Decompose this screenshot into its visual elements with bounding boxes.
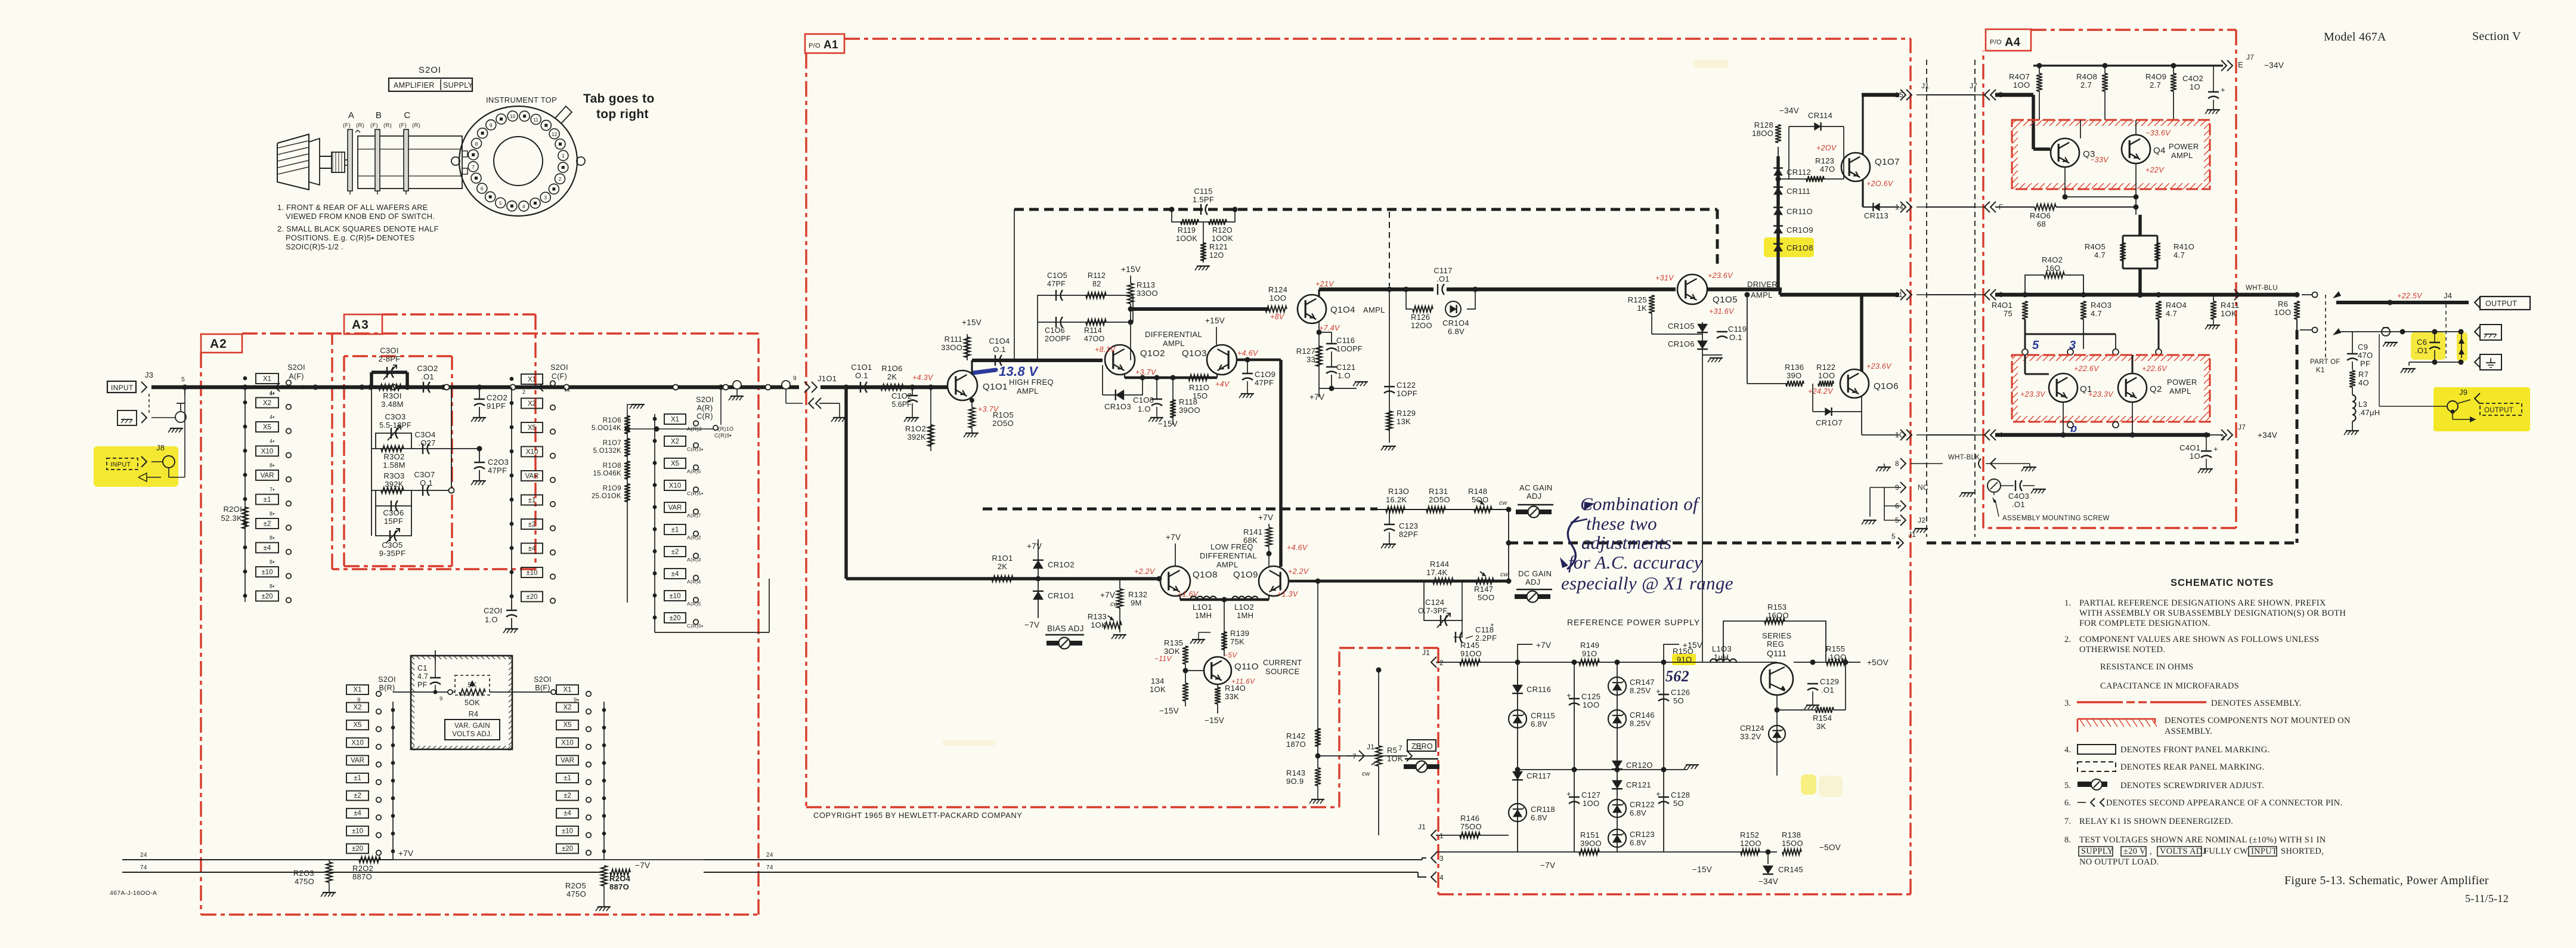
svg-text:75K: 75K — [1230, 637, 1244, 646]
svg-text:±2: ±2 — [264, 521, 271, 528]
svg-text:AMPL: AMPL — [2171, 151, 2193, 160]
svg-text:5OK: 5OK — [465, 699, 480, 707]
svg-text:Q11O: Q11O — [1234, 662, 1259, 672]
svg-text:L1O1: L1O1 — [1193, 603, 1212, 612]
svg-text:1OO: 1OO — [1583, 799, 1599, 808]
svg-text:CR124: CR124 — [1740, 724, 1764, 733]
svg-text:C123: C123 — [1399, 521, 1418, 530]
svg-text:VOLTS ADJ.: VOLTS ADJ. — [452, 731, 492, 738]
svg-text:VIEWED FROM KNOB END OF SWITCH: VIEWED FROM KNOB END OF SWITCH. — [286, 212, 435, 221]
svg-text:9M: 9M — [1131, 598, 1142, 607]
svg-text:DENOTES FRONT PANEL MARKING.: DENOTES FRONT PANEL MARKING. — [2120, 745, 2270, 755]
svg-text:1OPF: 1OPF — [1397, 389, 1417, 398]
svg-text:CR1O4: CR1O4 — [1442, 319, 1469, 328]
svg-text:−15V: −15V — [1692, 865, 1712, 874]
svg-text:1O: 1O — [1895, 431, 1905, 439]
svg-text:X1: X1 — [528, 376, 536, 384]
svg-text:68: 68 — [2037, 220, 2046, 228]
svg-text:C3O6: C3O6 — [383, 508, 404, 517]
svg-text:SUPPLY: SUPPLY — [443, 81, 473, 89]
svg-text:R4O2: R4O2 — [2042, 255, 2063, 264]
svg-text:AMPL: AMPL — [1163, 339, 1185, 348]
svg-text:X5: X5 — [671, 461, 679, 468]
svg-text:392K: 392K — [907, 433, 926, 441]
svg-text:6: 6 — [481, 186, 484, 192]
svg-text:P/O: P/O — [809, 42, 821, 50]
svg-text:8▪: 8▪ — [270, 535, 275, 541]
svg-text:+7V: +7V — [398, 849, 413, 858]
svg-text:4.7: 4.7 — [417, 672, 428, 681]
svg-text:1▪: 1▪ — [302, 384, 307, 390]
svg-text:33OO: 33OO — [941, 343, 962, 352]
svg-text:C2OI: C2OI — [484, 606, 503, 615]
svg-text:1OO: 1OO — [2274, 308, 2291, 317]
svg-text:A: A — [348, 110, 354, 121]
svg-text:1.O: 1.O — [1138, 404, 1151, 413]
svg-text:+31V: +31V — [1655, 274, 1674, 282]
svg-text:+4.6V: +4.6V — [1287, 544, 1308, 552]
svg-text:O.1: O.1 — [855, 371, 868, 380]
svg-text:39O: 39O — [1787, 371, 1801, 380]
svg-text:C3O2: C3O2 — [417, 364, 438, 373]
svg-text:WHT-BLK: WHT-BLK — [1948, 454, 1980, 461]
svg-text:±20: ±20 — [562, 845, 573, 853]
svg-text:C1O2: C1O2 — [891, 391, 912, 400]
svg-text:C129: C129 — [1820, 677, 1839, 686]
svg-text:R138: R138 — [1782, 830, 1801, 839]
svg-text:5O: 5O — [1673, 799, 1684, 808]
svg-text:±4: ±4 — [563, 810, 571, 817]
svg-text:X5: X5 — [563, 722, 571, 729]
svg-text:A(R): A(R) — [697, 404, 713, 412]
svg-text:5: 5 — [1891, 532, 1896, 541]
svg-text:2. SMALL BLACK SQUARES DENOTE: 2. SMALL BLACK SQUARES DENOTE HALF — [277, 224, 439, 233]
svg-text:17.4K: 17.4K — [1426, 568, 1448, 577]
svg-text:5.: 5. — [2064, 781, 2071, 790]
svg-text:RELAY K1 IS SHOWN DEENERGIZED.: RELAY K1 IS SHOWN DEENERGIZED. — [2079, 817, 2233, 826]
svg-text:−15V: −15V — [1205, 716, 1224, 725]
svg-text:91PF: 91PF — [487, 402, 506, 410]
svg-text:C115: C115 — [1194, 187, 1212, 196]
svg-text:+7V: +7V — [1027, 542, 1042, 551]
svg-text:1.58M: 1.58M — [383, 461, 405, 470]
svg-text:DENOTES SECOND APPEARANCE OF A: DENOTES SECOND APPEARANCE OF A CONNECTOR… — [2106, 798, 2342, 808]
svg-text:R144: R144 — [1430, 560, 1449, 569]
svg-text:5OO: 5OO — [1478, 593, 1494, 602]
svg-text:+: + — [2221, 85, 2225, 94]
svg-text:2K: 2K — [998, 562, 1008, 571]
svg-text:±4: ±4 — [528, 545, 536, 552]
svg-text:R1O5: R1O5 — [993, 410, 1014, 419]
svg-text:BIAS ADJ: BIAS ADJ — [1047, 624, 1084, 633]
svg-text:VAR: VAR — [561, 757, 574, 764]
svg-text:R2O3: R2O3 — [293, 869, 314, 878]
svg-text:R133: R133 — [1088, 612, 1107, 621]
svg-text:X2: X2 — [353, 704, 361, 711]
svg-text:CR1O9: CR1O9 — [1787, 226, 1813, 234]
svg-text:1OK: 1OK — [1387, 754, 1403, 763]
svg-text:R11O: R11O — [1189, 383, 1209, 392]
svg-text:+7V: +7V — [1309, 393, 1324, 402]
svg-text:2: 2 — [1439, 659, 1444, 667]
svg-text:47OO: 47OO — [1084, 335, 1105, 343]
svg-text:75OO: 75OO — [1460, 822, 1482, 831]
svg-text:REFERENCE POWER SUPPLY: REFERENCE POWER SUPPLY — [1567, 617, 1700, 627]
svg-text:7: 7 — [472, 164, 475, 170]
svg-text:+: + — [1566, 789, 1571, 798]
svg-text:±20 V: ±20 V — [2123, 847, 2146, 856]
svg-text:Q1O4: Q1O4 — [1330, 305, 1355, 315]
svg-text:R129: R129 — [1397, 409, 1416, 418]
svg-text:5.6PF: 5.6PF — [891, 400, 912, 409]
svg-text:R127: R127 — [1296, 347, 1315, 356]
svg-text:+: + — [1656, 687, 1661, 696]
svg-text:887O: 887O — [609, 882, 629, 891]
svg-text:C6: C6 — [2417, 338, 2427, 347]
svg-text:33: 33 — [1306, 355, 1315, 364]
svg-text:1OK: 1OK — [2221, 309, 2237, 318]
svg-text:Q1O5: Q1O5 — [1713, 295, 1738, 305]
svg-text:REG: REG — [1767, 640, 1784, 649]
svg-text:+31.6V: +31.6V — [1709, 307, 1735, 316]
svg-text:R131: R131 — [1429, 487, 1448, 496]
svg-text:C1O9: C1O9 — [1255, 370, 1275, 379]
svg-text:L1O2: L1O2 — [1234, 603, 1254, 612]
svg-text:±20: ±20 — [526, 594, 537, 601]
svg-text:7: 7 — [1352, 752, 1357, 761]
svg-text:(F): (F) — [343, 122, 351, 129]
svg-text:DENOTES REAR PANEL MARKING.: DENOTES REAR PANEL MARKING. — [2120, 762, 2264, 772]
svg-text:(R): (R) — [356, 122, 364, 129]
svg-text:DIFFERENTIAL: DIFFERENTIAL — [1200, 551, 1257, 560]
svg-text:A3: A3 — [352, 318, 369, 332]
svg-text:+23.3V: +23.3V — [2088, 390, 2114, 399]
svg-text:J7: J7 — [2238, 423, 2246, 431]
svg-text:X10: X10 — [669, 483, 681, 490]
svg-text:these two: these two — [1586, 513, 1657, 534]
svg-text:(F): (F) — [399, 122, 407, 129]
svg-text:Q1O2: Q1O2 — [1140, 348, 1165, 359]
svg-text:16.2K: 16.2K — [1386, 495, 1407, 504]
svg-text:R153: R153 — [1767, 603, 1787, 612]
svg-text:33OO: 33OO — [1137, 289, 1158, 298]
svg-text:NC: NC — [1918, 483, 1928, 492]
svg-text:.47μH: .47μH — [2358, 408, 2380, 417]
svg-text:X1: X1 — [563, 687, 571, 694]
svg-text:CR1O7: CR1O7 — [1816, 418, 1843, 427]
svg-text:A(R)7: A(R)7 — [687, 512, 701, 518]
svg-text:C127: C127 — [1581, 790, 1600, 799]
svg-text:4.7: 4.7 — [2166, 309, 2177, 318]
svg-text:±10: ±10 — [352, 827, 363, 835]
svg-text:4.7: 4.7 — [2091, 309, 2102, 318]
svg-text:Q1O8: Q1O8 — [1193, 570, 1218, 580]
svg-text:11: 11 — [533, 117, 538, 123]
svg-text:6.8V: 6.8V — [1630, 838, 1646, 847]
svg-text:VAR: VAR — [351, 757, 364, 764]
svg-text:1K: 1K — [1637, 304, 1647, 313]
svg-text:C1O6: C1O6 — [1045, 326, 1065, 335]
svg-text:8.25V: 8.25V — [1630, 719, 1651, 728]
svg-text:R3O3: R3O3 — [383, 471, 404, 480]
svg-text:R4O1: R4O1 — [1992, 301, 2012, 310]
svg-text:SUPPLY: SUPPLY — [2081, 847, 2114, 856]
svg-text:C1O1: C1O1 — [851, 363, 872, 372]
svg-text:R1O9: R1O9 — [603, 485, 621, 492]
svg-text:12: 12 — [564, 387, 571, 393]
svg-text:1OO: 1OO — [2013, 81, 2030, 89]
svg-text:+4.6V: +4.6V — [1237, 349, 1259, 357]
svg-text:82PF: 82PF — [1399, 530, 1418, 539]
svg-text:1. FRONT & REAR OF ALL WAFERS: 1. FRONT & REAR OF ALL WAFERS ARE — [277, 203, 428, 212]
svg-text:91O: 91O — [1677, 655, 1692, 664]
svg-text:13K: 13K — [1397, 417, 1411, 426]
svg-text:±2: ±2 — [528, 521, 536, 529]
svg-text:X5: X5 — [263, 424, 271, 431]
svg-text:C1O8: C1O8 — [1133, 396, 1154, 404]
svg-text:ADJ: ADJ — [1527, 492, 1541, 501]
svg-text:C4O1: C4O1 — [2179, 443, 2200, 452]
svg-text:.O1: .O1 — [421, 372, 434, 381]
svg-text:467A-J-16OO-A: 467A-J-16OO-A — [110, 890, 157, 897]
svg-text:15OO: 15OO — [1782, 839, 1803, 848]
svg-text:Model 467A: Model 467A — [2324, 30, 2386, 44]
svg-text:8.: 8. — [2064, 835, 2071, 845]
svg-text:1.O: 1.O — [485, 615, 498, 624]
svg-text:CR112: CR112 — [1787, 168, 1811, 177]
svg-text:8▪: 8▪ — [270, 559, 275, 565]
svg-text:C116: C116 — [1336, 336, 1355, 345]
svg-text:+: + — [1656, 789, 1661, 798]
svg-text:1MH: 1MH — [1195, 611, 1212, 620]
svg-text:−15V: −15V — [1159, 706, 1179, 715]
svg-text:O.1: O.1 — [1729, 333, 1742, 342]
svg-text:R135: R135 — [1164, 638, 1183, 647]
svg-text:CR123: CR123 — [1630, 830, 1655, 839]
svg-text:9O.9: 9O.9 — [1286, 777, 1304, 786]
svg-text:8: 8 — [475, 141, 478, 147]
svg-text:DENOTES SCREWDRIVER ADJUST.: DENOTES SCREWDRIVER ADJUST. — [2120, 781, 2264, 790]
svg-text:.O27: .O27 — [418, 439, 435, 447]
svg-text:2.7: 2.7 — [2150, 81, 2161, 89]
svg-text:R4O8: R4O8 — [2076, 72, 2097, 81]
svg-text:Q4: Q4 — [2153, 146, 2166, 156]
svg-text:91OO: 91OO — [1460, 649, 1482, 658]
svg-text:R114: R114 — [1084, 326, 1102, 335]
svg-text:X10: X10 — [561, 739, 573, 746]
svg-text:3: 3 — [544, 194, 547, 200]
svg-text:1O: 1O — [2190, 82, 2200, 91]
svg-text:±1: ±1 — [563, 775, 571, 782]
svg-text:1OO: 1OO — [1270, 294, 1286, 302]
svg-text:R122: R122 — [1816, 363, 1835, 372]
svg-text:R1O1: R1O1 — [992, 554, 1013, 563]
svg-text:R147: R147 — [1474, 585, 1493, 594]
svg-text:74: 74 — [140, 864, 147, 871]
svg-text:R123: R123 — [1815, 156, 1834, 165]
svg-text:R13O: R13O — [1388, 487, 1409, 496]
svg-text:Q1O3: Q1O3 — [1182, 348, 1207, 359]
svg-text:R1O7: R1O7 — [603, 440, 621, 447]
svg-text:±1: ±1 — [354, 775, 361, 782]
svg-text:Tab goes to: Tab goes to — [583, 92, 655, 106]
svg-text:R411: R411 — [2221, 301, 2239, 310]
svg-text:±20: ±20 — [669, 615, 680, 622]
svg-text:POWER: POWER — [2169, 142, 2199, 151]
svg-text:6.8V: 6.8V — [1630, 808, 1646, 817]
svg-text:POSITIONS. E.g. C(R)5▪ DENOTES: POSITIONS. E.g. C(R)5▪ DENOTES — [286, 233, 414, 242]
svg-text:ASSEMBLY.: ASSEMBLY. — [2165, 727, 2212, 736]
svg-text:CR121: CR121 — [1626, 780, 1651, 789]
svg-text:(R): (R) — [383, 122, 392, 129]
svg-text:HIGH FREQ: HIGH FREQ — [1009, 378, 1054, 387]
svg-text:J1: J1 — [1418, 823, 1426, 831]
svg-text:CR1O3: CR1O3 — [1104, 402, 1131, 411]
svg-text:91O: 91O — [1582, 649, 1597, 658]
svg-text:S2OI: S2OI — [287, 363, 305, 372]
svg-text:+7V: +7V — [1166, 533, 1181, 542]
svg-text:52.3K: 52.3K — [221, 514, 243, 523]
svg-text:6.: 6. — [2064, 798, 2071, 808]
svg-text:CR1O6: CR1O6 — [1668, 339, 1695, 348]
svg-text:CAPACITANCE IN MICROFARADS: CAPACITANCE IN MICROFARADS — [2100, 681, 2239, 691]
svg-text:47O: 47O — [1820, 165, 1835, 174]
svg-text:82: 82 — [1092, 280, 1101, 288]
svg-text:AMPL: AMPL — [2169, 387, 2191, 396]
svg-text:+1.3V: +1.3V — [1277, 590, 1299, 598]
svg-text:Q2: Q2 — [2150, 384, 2162, 394]
svg-text:C121: C121 — [1336, 363, 1355, 372]
svg-text:C(R)3▪: C(R)3▪ — [687, 446, 703, 452]
svg-text:2K: 2K — [887, 372, 897, 381]
svg-text:Q111: Q111 — [1767, 649, 1787, 658]
svg-text:R111: R111 — [945, 335, 962, 344]
svg-text:2: 2 — [559, 176, 562, 182]
svg-text:INPUT: INPUT — [2251, 847, 2277, 856]
svg-text:15.O46K: 15.O46K — [593, 470, 622, 477]
svg-text:VAR: VAR — [668, 505, 682, 512]
svg-text:+15V: +15V — [1205, 316, 1225, 325]
svg-text:SHORTED,: SHORTED, — [2281, 847, 2324, 856]
svg-text:PF: PF — [2360, 359, 2370, 368]
svg-text:1OK: 1OK — [1150, 685, 1166, 694]
svg-text:4: 4 — [522, 203, 525, 209]
svg-text:INSTRUMENT TOP: INSTRUMENT TOP — [486, 95, 557, 104]
svg-text:±10: ±10 — [261, 569, 273, 576]
svg-text:5: 5 — [181, 376, 185, 383]
svg-text:R113: R113 — [1137, 280, 1155, 289]
svg-text:J4: J4 — [2444, 291, 2452, 300]
svg-text:+22.5V: +22.5V — [2397, 292, 2423, 300]
svg-text:OUTPUT: OUTPUT — [2485, 299, 2517, 308]
svg-text:3.: 3. — [2064, 699, 2071, 708]
svg-text:4▪: 4▪ — [270, 414, 275, 420]
svg-text:5: 5 — [499, 200, 502, 206]
svg-text:−34V: −34V — [2264, 61, 2284, 70]
svg-text:OUTPUT: OUTPUT — [2484, 407, 2513, 414]
svg-text:J9: J9 — [2459, 388, 2467, 397]
svg-text:X1: X1 — [263, 376, 271, 383]
svg-text:5OO: 5OO — [1472, 495, 1488, 504]
svg-text:±20: ±20 — [261, 593, 273, 600]
svg-text:+2.2V: +2.2V — [1134, 567, 1156, 576]
svg-text:B(R): B(R) — [379, 684, 395, 692]
svg-text:PARTIAL REFERENCE DESIGNATIONS: PARTIAL REFERENCE DESIGNATIONS ARE SHOWN… — [2079, 598, 2326, 608]
svg-text:R4O5: R4O5 — [2085, 242, 2106, 251]
svg-text:R2O2: R2O2 — [352, 864, 373, 873]
svg-text:+7V: +7V — [1100, 591, 1115, 600]
svg-text:B(F): B(F) — [535, 684, 550, 692]
svg-text:±2: ±2 — [354, 792, 361, 799]
svg-text:+2O.6V: +2O.6V — [1866, 180, 1894, 188]
svg-text:S2OI: S2OI — [696, 396, 714, 404]
svg-text:J1O1: J1O1 — [818, 374, 837, 383]
svg-text:R6: R6 — [2278, 299, 2288, 308]
svg-text:+15V: +15V — [962, 318, 982, 327]
svg-text:CR111: CR111 — [1787, 187, 1810, 196]
svg-text:15PF: 15PF — [384, 517, 403, 526]
svg-text:−15V: −15V — [1158, 419, 1178, 428]
svg-text:3.48M: 3.48M — [381, 400, 404, 409]
svg-text:±10: ±10 — [669, 593, 680, 600]
svg-text:5.O132K: 5.O132K — [593, 447, 622, 455]
svg-text:C(R)9▪: C(R)9▪ — [714, 433, 732, 439]
svg-text:C1O5: C1O5 — [1047, 271, 1067, 280]
svg-text:5.5-18PF: 5.5-18PF — [379, 421, 411, 430]
svg-text:C2O3: C2O3 — [488, 458, 509, 467]
svg-text:AMPL: AMPL — [1751, 291, 1773, 299]
svg-text:1.5PF: 1.5PF — [1193, 195, 1214, 204]
svg-text:R139: R139 — [1230, 629, 1249, 638]
svg-text:1OK: 1OK — [1091, 620, 1107, 629]
svg-text:R2O5: R2O5 — [565, 881, 586, 890]
svg-text:C4O2: C4O2 — [2182, 74, 2203, 83]
svg-text:R4O6: R4O6 — [2030, 211, 2051, 220]
svg-text:ADJ: ADJ — [1525, 578, 1540, 586]
svg-text:R119: R119 — [1178, 226, 1196, 234]
svg-text:R1O2: R1O2 — [905, 424, 926, 433]
svg-text:15: 15 — [1895, 91, 1903, 99]
svg-text:75: 75 — [2004, 309, 2012, 318]
svg-text:1.O: 1.O — [1337, 371, 1351, 380]
svg-text:X2: X2 — [671, 439, 679, 446]
svg-text:2.: 2. — [2064, 635, 2071, 644]
svg-text:Q1O9: Q1O9 — [1233, 570, 1258, 580]
svg-text:9-35PF: 9-35PF — [379, 549, 405, 558]
svg-text:CR122: CR122 — [1630, 800, 1655, 809]
svg-text:47PF: 47PF — [1047, 280, 1066, 288]
svg-text:12OO: 12OO — [1411, 321, 1432, 330]
svg-text:2.7: 2.7 — [2080, 81, 2092, 89]
svg-text:2O5O: 2O5O — [1429, 495, 1450, 504]
svg-text:R118: R118 — [1179, 397, 1197, 406]
svg-text:+24.2V: +24.2V — [1808, 387, 1834, 396]
svg-text:WITH ASSEMBLY OR SUBASSEMBLY D: WITH ASSEMBLY OR SUBASSEMBLY DESIGNATION… — [2079, 609, 2346, 618]
svg-text:S2OI: S2OI — [419, 65, 441, 75]
svg-text:39OO: 39OO — [1580, 839, 1602, 848]
svg-text:CR115: CR115 — [1531, 711, 1555, 720]
svg-text:DENOTES COMPONENTS NOT MOUNTED: DENOTES COMPONENTS NOT MOUNTED ON — [2165, 716, 2351, 725]
svg-text:C3OI: C3OI — [380, 346, 399, 355]
svg-text:PART OF: PART OF — [2310, 359, 2340, 366]
svg-text:R121: R121 — [1209, 243, 1228, 251]
svg-text:AMPL: AMPL — [1216, 560, 1239, 569]
svg-text:INPUT: INPUT — [110, 461, 131, 468]
svg-text:top right: top right — [596, 107, 649, 121]
svg-text:DIFFERENTIAL: DIFFERENTIAL — [1145, 330, 1202, 339]
svg-text:R125: R125 — [1628, 295, 1647, 304]
svg-text:R41O: R41O — [2173, 242, 2194, 251]
